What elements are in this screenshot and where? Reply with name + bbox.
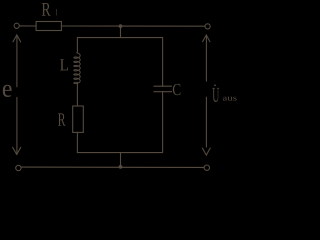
wire R to bottom rail [76, 132, 78, 152]
phasor dot above U [214, 84, 216, 86]
capacitor C bottom plate [154, 91, 172, 93]
label e [3, 85, 12, 97]
resistor R box [73, 106, 84, 132]
label U_aus : U [212, 88, 219, 102]
arrow e line lower segment [16, 97, 18, 154]
label C [173, 84, 181, 95]
capacitor C top plate [154, 85, 172, 87]
label U_aus : subscript aus [223, 97, 237, 101]
wire junction drop top [120, 26, 122, 37]
wire C branch bottom [162, 92, 164, 153]
label R [58, 113, 66, 125]
wire top-right [61, 25, 205, 27]
wire C branch top [162, 38, 164, 87]
junction dot top [119, 24, 123, 28]
arrow Uaus line upper segment [205, 35, 207, 81]
label R_i : R [42, 3, 51, 16]
wire top-left [19, 25, 36, 27]
inductor L coil [74, 53, 80, 84]
arrow e up head [13, 35, 21, 42]
wire L to R [76, 82, 78, 106]
wire L branch top [76, 38, 78, 53]
label L [60, 59, 68, 70]
arrow Uaus line lower segment [205, 97, 207, 147]
wire inner top rail [77, 37, 162, 39]
terminal bottom-left [16, 165, 21, 170]
wire bottom [21, 166, 204, 168]
wire junction riser bottom [120, 153, 122, 167]
arrow e line upper segment [16, 35, 18, 87]
wire inner bottom rail [77, 152, 162, 154]
arrow e down head [13, 147, 21, 154]
arrow Uaus up head [203, 35, 210, 42]
arrow Uaus down head [202, 148, 210, 155]
label R_i : subscript i [56, 9, 57, 15]
terminal top-right [205, 24, 210, 29]
terminal top-left [14, 23, 19, 28]
resistor R_i box [36, 22, 61, 31]
junction dot bottom [119, 165, 123, 169]
terminal bottom-right [204, 165, 209, 170]
